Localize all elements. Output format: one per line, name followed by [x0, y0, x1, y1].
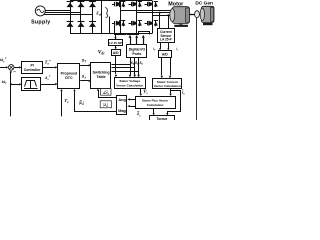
stator flux vector calculation block	[136, 97, 176, 109]
node tap phase b	[159, 12, 161, 14]
IGBT Q2 top with diode	[129, 4, 132, 6]
IGBT Q1 top with diode	[112, 4, 115, 6]
wire tap b down to current sensor	[159, 13, 161, 29]
switching table block	[91, 63, 111, 89]
wire flux calc to AngMag upper	[130, 99, 136, 101]
shaft coupling-dcgen	[199, 13, 201, 16]
svg-text:Supply: Supply	[31, 19, 50, 25]
svg-text:Torque: Torque	[156, 117, 167, 120]
wire T_e feedback up to DTC	[61, 91, 63, 116]
IGBT Q6 bottom with diode	[145, 23, 148, 25]
wire V_s to flux calc	[140, 88, 142, 94]
svg-text:−: −	[13, 69, 16, 74]
node tap phase c	[167, 14, 169, 16]
wire S_b vertical	[134, 58, 136, 75]
wire A/D to current calc 2	[170, 57, 172, 75]
motor base	[174, 25, 188, 27]
summing junction	[8, 65, 14, 71]
dc generator body	[202, 6, 215, 22]
svg-text:Mag: Mag	[118, 109, 126, 113]
wire i_s branch to torque calc	[168, 91, 181, 114]
svg-text:Proposed: Proposed	[61, 72, 78, 76]
label angle lambda_s boxed	[101, 89, 111, 96]
wire inverter phase c to motor	[153, 15, 173, 17]
gate pulse arrow 2	[135, 37, 137, 45]
svg-text:ωr: ωr	[2, 80, 8, 85]
proposed DTC block	[58, 64, 80, 89]
induction motor body	[172, 7, 189, 24]
rectifier leg 1 wire	[70, 1, 72, 33]
svg-text:Switching: Switching	[93, 70, 110, 74]
inverter leg 1 wire	[120, 1, 122, 33]
stator voltage vector calculation block	[115, 78, 146, 89]
diode D3 top	[89, 0, 96, 2]
svg-text:A/D: A/D	[162, 53, 168, 57]
wire i_s to flux calc	[170, 89, 172, 94]
IGBT Q5 bottom with diode	[129, 23, 132, 25]
svg-text:Vector Calculation: Vector Calculation	[116, 83, 143, 87]
coupling	[195, 11, 200, 18]
wire S_a	[112, 64, 131, 66]
current sensor LA 25-P	[158, 29, 175, 43]
svg-text:DTC: DTC	[65, 76, 73, 80]
voltage sensor LV 25 NP	[109, 40, 123, 46]
wire phase a supply to rectifier	[45, 10, 70, 12]
svg-text:LV 25 NP: LV 25 NP	[109, 41, 122, 45]
wire dc bus to LV sensor	[115, 33, 117, 37]
A/D converter voltage	[112, 50, 121, 56]
shaft motor-coupling	[189, 13, 194, 16]
wire flux calc to AngMag lower	[130, 106, 136, 108]
wire omega_r to flux block	[11, 84, 20, 86]
svg-text:Stator Flux Vector: Stator Flux Vector	[142, 99, 169, 103]
wire inverter phase b to motor	[137, 12, 173, 14]
IGBT Q4 bottom with diode	[112, 23, 115, 25]
DC bus negative rail	[70, 33, 153, 35]
svg-text:Controller: Controller	[24, 68, 41, 72]
wire V_dc down to voltage calc	[115, 55, 117, 74]
gate signal bus	[127, 32, 150, 35]
svg-text:Digital I/O: Digital I/O	[129, 47, 146, 51]
wire S_a vertical	[130, 58, 132, 75]
wire angle to switching table	[99, 91, 117, 98]
svg-text:Vector Calculation: Vector Calculation	[154, 84, 181, 88]
svg-text:LA 25-P: LA 25-P	[160, 38, 173, 42]
wire tap c down to current sensor	[168, 15, 170, 29]
diode D5 bottom	[78, 20, 85, 22]
wire S_lambda to switching table	[80, 80, 89, 82]
wire sensor b to A/D	[160, 43, 162, 49]
diode D1 top	[67, 0, 74, 2]
svg-text:Stator Current: Stator Current	[157, 80, 178, 84]
diode D4 bottom	[67, 20, 74, 22]
rectifier leg 3 wire	[92, 1, 94, 33]
wire sensor c to A/D	[168, 43, 170, 49]
svg-text:PI: PI	[30, 63, 33, 67]
svg-text:Calculation: Calculation	[147, 103, 164, 107]
Ang Mag block	[117, 96, 127, 115]
wire phase c supply to rectifier	[44, 14, 92, 16]
AC supply source	[35, 6, 45, 16]
wire S_c	[112, 71, 139, 73]
PI controller	[22, 62, 43, 74]
wire omega_r from bottom	[10, 84, 12, 116]
wire S_c vertical	[138, 58, 140, 75]
A/D converter current	[159, 51, 172, 58]
label mag lambda_s boxed	[100, 101, 111, 108]
svg-text:Stator Voltage: Stator Voltage	[119, 79, 140, 83]
wire T_e* to DTC	[43, 67, 56, 69]
digital I/O ports	[127, 45, 147, 58]
diode D2 top	[78, 0, 85, 2]
svg-text:A/D: A/D	[113, 51, 119, 55]
wire A/D to current calc 1	[161, 57, 163, 75]
dc gen base	[203, 23, 213, 25]
capacitor C dc-link	[101, 1, 103, 33]
torque calculation block	[150, 116, 175, 121]
inverter leg 3 wire	[152, 1, 154, 33]
svg-text:Ports: Ports	[132, 52, 141, 56]
wire speed feedback down right side	[196, 18, 198, 120]
wire phase b supply to rectifier	[45, 12, 81, 14]
svg-text:DC Gen: DC Gen	[195, 0, 213, 6]
wire lambda_s* to DTC	[40, 84, 55, 86]
diode D6 bottom	[89, 20, 96, 22]
wire omega_r feedback up to junction	[10, 72, 12, 85]
wire lambda_s to torque calc	[153, 109, 155, 113]
wire LV sensor to A/D	[115, 46, 117, 48]
wire magnitude from Mag output	[75, 92, 117, 112]
svg-text:Table: Table	[97, 75, 106, 79]
DC bus positive rail	[70, 0, 153, 2]
wire S_T to switching table	[80, 65, 89, 67]
flux reference block	[22, 78, 41, 91]
svg-text:Ang: Ang	[118, 98, 126, 102]
rectifier leg 2 wire	[80, 1, 82, 33]
gate pulse arrow 3	[142, 37, 144, 45]
gate pulse arrow 1	[129, 37, 131, 45]
wire S_b	[112, 67, 135, 69]
inverter leg 2 wire	[136, 1, 138, 33]
stator current vector calculation block	[153, 79, 182, 89]
IGBT Q3 top with diode	[145, 4, 148, 6]
wire omega ref input	[0, 67, 6, 69]
wire junction to PI	[14, 67, 19, 69]
node omega_r	[10, 83, 12, 85]
wire inverter phase a to motor	[120, 10, 172, 12]
